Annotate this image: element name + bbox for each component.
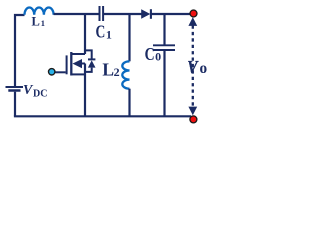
inductor L1 — [25, 8, 54, 15]
svg-text:V: V — [187, 57, 198, 77]
channel bar — [70, 52, 72, 76]
label C1 — [96, 22, 112, 42]
capacitor C0 — [153, 45, 175, 50]
battery VDC long bar — [6, 86, 24, 88]
body arrow stub — [80, 63, 86, 65]
wire left vertical below battery — [14, 92, 16, 117]
svg-text:o: o — [200, 60, 208, 77]
top stub drain to channel — [71, 53, 85, 55]
label V0 — [187, 57, 207, 77]
capacitor C1 — [100, 6, 104, 21]
body arrow head — [73, 59, 83, 68]
wire left vertical and top-left corner — [15, 15, 25, 86]
gate terminal dot — [49, 69, 55, 75]
body diode bottom elbow — [85, 68, 92, 72]
wire top rail diode to output node — [152, 13, 192, 15]
wire top rail C1 to diode — [104, 13, 142, 15]
wire source vertical to bottom rail — [84, 64, 86, 117]
svg-text:2: 2 — [114, 65, 120, 79]
V0 dashed arrow line — [188, 17, 197, 115]
wire bottom rail — [14, 115, 191, 117]
body diode cathode bar — [88, 58, 95, 60]
label L2 — [102, 59, 119, 79]
transistor Q1 (MOSFET with body diode) — [52, 50, 96, 75]
svg-text:L: L — [102, 59, 114, 79]
label L1 — [32, 14, 46, 28]
gate bar — [66, 55, 68, 74]
battery VDC short bar — [8, 89, 20, 92]
node output bottom (red) — [190, 116, 197, 123]
svg-text:1: 1 — [41, 18, 45, 28]
svg-text:0: 0 — [155, 50, 161, 64]
body diode triangle — [88, 60, 96, 67]
label C0 — [145, 44, 162, 64]
wire C0 branch bottom — [163, 51, 165, 116]
wire drain branch from top rail — [84, 14, 86, 54]
svg-text:C: C — [96, 22, 106, 42]
svg-text:1: 1 — [106, 28, 112, 42]
inductor L2 — [122, 61, 129, 88]
gate lead — [52, 71, 66, 73]
wire C0 branch top — [163, 14, 165, 45]
svg-text:L: L — [32, 14, 40, 28]
wire L2 branch top — [128, 14, 130, 61]
body diode top elbow — [85, 50, 92, 58]
wire L2 branch bottom — [128, 89, 130, 117]
label VDC — [23, 83, 47, 100]
node output top (red) — [190, 10, 197, 17]
bottom stub source to channel — [71, 73, 85, 75]
svg-text:C: C — [145, 44, 155, 64]
svg-text:DC: DC — [33, 89, 47, 100]
diode D1 — [141, 9, 151, 19]
wire top rail L1 to C1 — [54, 13, 99, 15]
